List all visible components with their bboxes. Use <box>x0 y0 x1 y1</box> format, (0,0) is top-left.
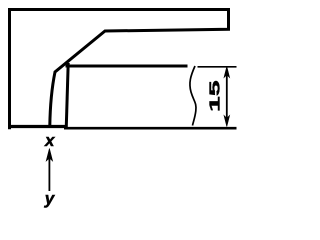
tool holder body outline <box>10 10 229 128</box>
dimension arrowhead top <box>224 67 230 78</box>
dimension arrowhead bottom <box>224 116 230 127</box>
dimension line <box>226 70 228 122</box>
blade top edge <box>66 65 188 68</box>
break (wavy) line <box>190 66 196 126</box>
svg-text:15: 15 <box>206 80 223 112</box>
blade left edge <box>66 63 68 130</box>
blade bottom edge <box>64 127 237 130</box>
svg-text:x: x <box>44 131 56 150</box>
axis arrow shaft <box>48 158 50 191</box>
body bottom edge <box>8 125 67 128</box>
dimension extension line (top) <box>198 66 237 68</box>
axis arrowhead <box>46 149 52 162</box>
svg-text:y: y <box>44 189 56 208</box>
